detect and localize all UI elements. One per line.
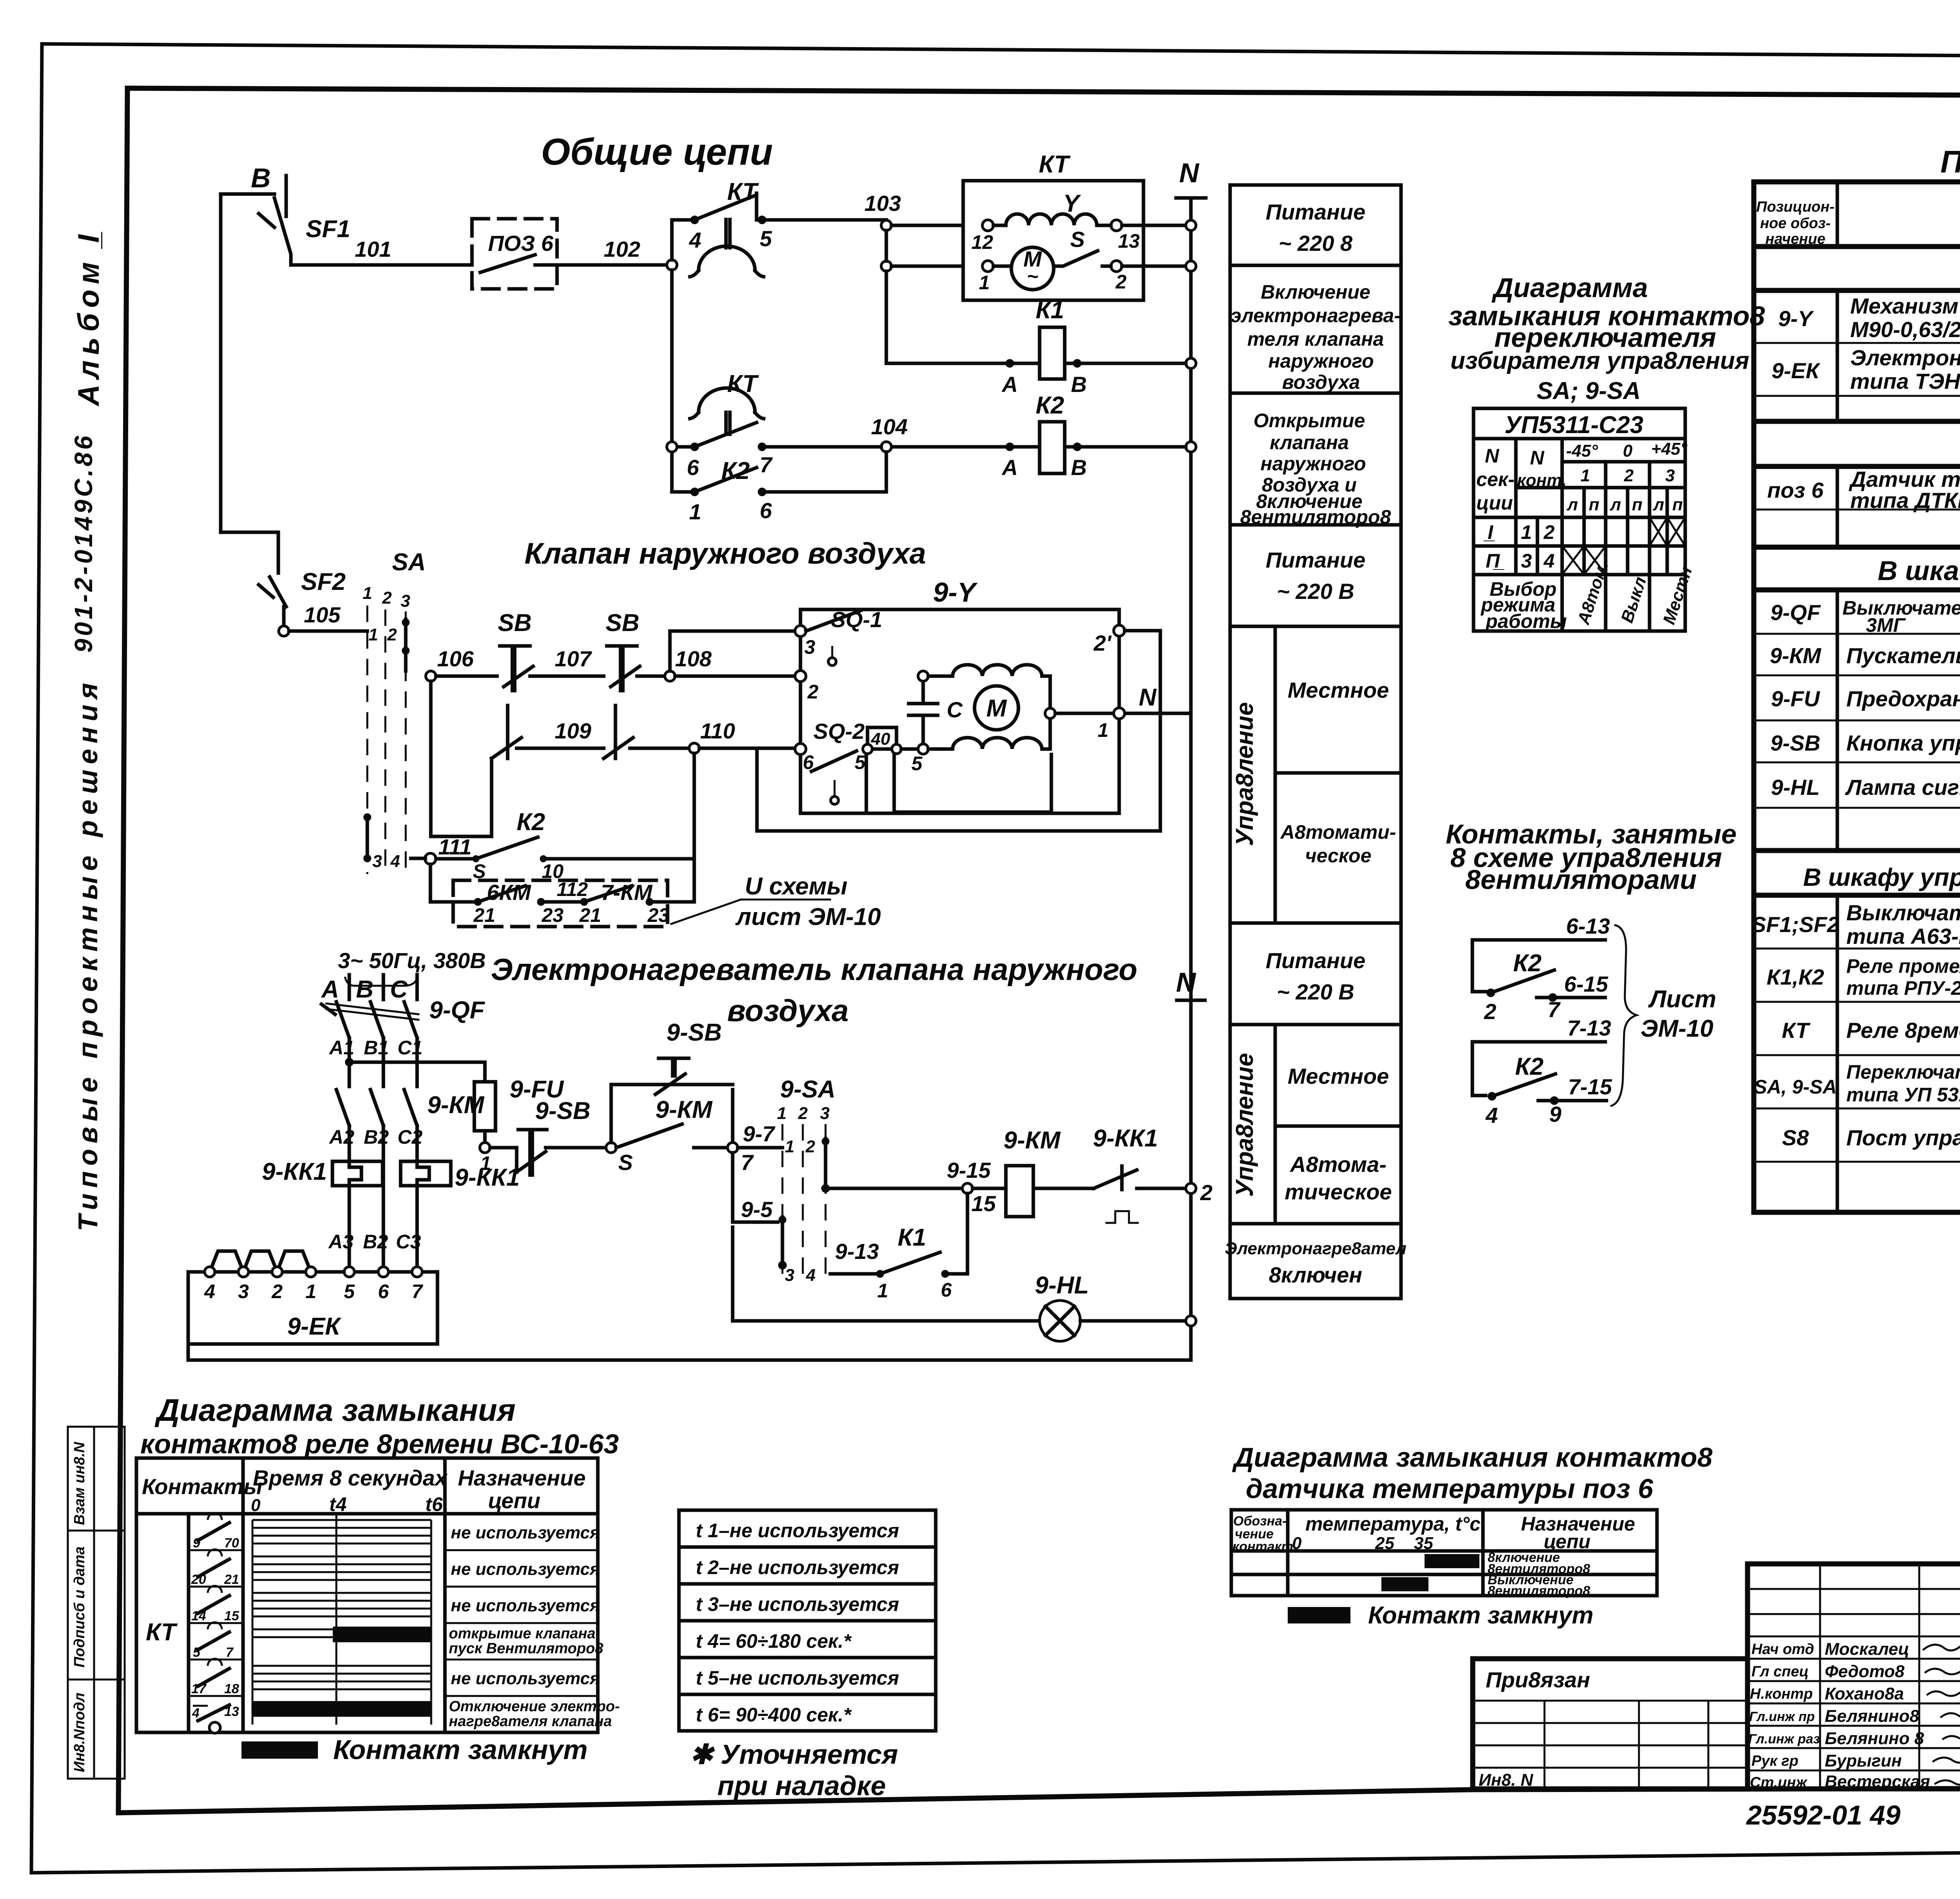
svg-text:SB: SB xyxy=(498,609,532,637)
svg-text:В: В xyxy=(1071,372,1087,397)
svg-text:0: 0 xyxy=(251,1496,261,1515)
wire 110 xyxy=(699,747,796,750)
svg-text:SF2: SF2 xyxy=(301,568,346,595)
svg-text:40: 40 xyxy=(871,729,890,749)
junction node 102 xyxy=(667,260,677,270)
svg-text:9-SB: 9-SB xyxy=(666,1019,722,1046)
svg-text:сек-: сек- xyxy=(1476,468,1515,490)
svg-text:9: 9 xyxy=(1549,1102,1561,1126)
svg-text:Лампа сигнальная типа СС-3: Лампа сигнальная типа СС-3 xyxy=(1845,775,1960,800)
svg-text:конт.: конт. xyxy=(1517,471,1567,490)
time relay contact table xyxy=(136,1458,598,1732)
svg-text:п: п xyxy=(1672,495,1683,514)
svg-text:~ 220 8: ~ 220 8 xyxy=(1279,231,1353,256)
svg-text:1: 1 xyxy=(363,584,372,603)
svg-text:104: 104 xyxy=(871,414,907,439)
svg-text:ции: ции xyxy=(1476,492,1513,514)
svg-text:В2: В2 xyxy=(363,1231,388,1253)
svg-text:7-13: 7-13 xyxy=(1567,1016,1611,1040)
svg-text:S: S xyxy=(618,1150,633,1175)
svg-text:70: 70 xyxy=(224,1536,239,1551)
svg-text:при наладке: при наладке xyxy=(717,1770,886,1801)
svg-text:2: 2 xyxy=(1624,466,1634,485)
svg-text:контакто8 реле 8ремени ВС-10-6: контакто8 реле 8ремени ВС-10-63 xyxy=(140,1429,619,1459)
svg-text:ное обоз-: ное обоз- xyxy=(1760,215,1831,232)
svg-text:N: N xyxy=(1139,684,1157,711)
node 110 xyxy=(689,718,735,753)
svg-text:типа ТЭН-100Б , 220 8, 0,4 к8т: типа ТЭН-100Б , 220 8, 0,4 к8т xyxy=(1850,369,1960,394)
svg-text:S8: S8 xyxy=(1782,1125,1809,1150)
wire feeder vertical 110-KM block xyxy=(693,753,696,902)
svg-text:107: 107 xyxy=(555,646,592,671)
svg-text:7: 7 xyxy=(412,1281,423,1302)
svg-text:3: 3 xyxy=(785,1266,794,1285)
svg-text:1: 1 xyxy=(1581,466,1590,485)
svg-text:t 1–не используется: t 1–не используется xyxy=(696,1520,899,1542)
svg-text:9-ЕК: 9-ЕК xyxy=(1771,358,1820,383)
svg-text:КТ: КТ xyxy=(1782,1018,1811,1043)
brace and note Лист ЭМ-10 xyxy=(1610,925,1716,1106)
svg-text:Диаграмма замыкания: Диаграмма замыкания xyxy=(154,1393,515,1427)
svg-text:не используется: не используется xyxy=(451,1669,600,1688)
svg-text:9: 9 xyxy=(193,1536,200,1551)
wire from A1 to fuse xyxy=(349,1062,485,1082)
svg-text:SA; 9-SA: SA; 9-SA xyxy=(1537,377,1641,404)
svg-text:Рук гр: Рук гр xyxy=(1751,1753,1798,1769)
wire 103 xyxy=(762,191,901,223)
svg-text:К1: К1 xyxy=(898,1224,926,1251)
svg-text:3~ 50Гц, 380В: 3~ 50Гц, 380В xyxy=(338,948,486,973)
svg-text:5: 5 xyxy=(760,226,772,251)
interlock block dashed (to sheet EM-10) xyxy=(430,864,694,927)
temperature sensor contact table xyxy=(1231,1510,1657,1598)
svg-text:Альбом I̲: Альбом I̲ xyxy=(72,229,105,406)
svg-text:теля клапана: теля клапана xyxy=(1247,328,1384,350)
svg-text:9-SA: 9-SA xyxy=(780,1076,835,1103)
svg-text:111: 111 xyxy=(438,834,472,859)
svg-text:25: 25 xyxy=(1375,1534,1394,1553)
svg-text:1: 1 xyxy=(979,272,990,294)
svg-text:3: 3 xyxy=(1521,550,1532,572)
node 103 xyxy=(881,220,891,230)
note Уточняется при наладке xyxy=(690,1739,898,1801)
svg-text:9-Y: 9-Y xyxy=(1778,306,1814,331)
svg-text:Диаграмма замыкания контакто8: Диаграмма замыкания контакто8 xyxy=(1232,1442,1713,1473)
svg-text:Ин8.Nподл: Ин8.Nподл xyxy=(71,1693,88,1772)
svg-text:Время 8 секундах: Время 8 секундах xyxy=(253,1466,448,1490)
svg-text:N: N xyxy=(1176,967,1196,998)
svg-text:1: 1 xyxy=(1098,719,1109,741)
selector 9-SA xyxy=(777,1076,835,1285)
svg-text:4: 4 xyxy=(390,852,400,871)
svg-text:Пускатель магнитный типа ПМ: Пускатель магнитный типа ПМЕ-112 xyxy=(1846,643,1960,668)
svg-text:21: 21 xyxy=(579,904,601,926)
svg-text:К2: К2 xyxy=(1513,950,1542,977)
wire 111 row with contact K2 xyxy=(411,809,694,882)
row 9-FU xyxy=(1771,686,1960,711)
svg-text:При8язан: При8язан xyxy=(1486,1667,1590,1692)
svg-text:13: 13 xyxy=(1118,230,1140,252)
node 2' bypass route xyxy=(757,625,1160,831)
svg-text:9-Y: 9-Y xyxy=(933,577,978,608)
column dividers adjust xyxy=(1229,626,1232,923)
svg-text:9-КК1: 9-КК1 xyxy=(262,1158,327,1185)
svg-text:А3: А3 xyxy=(328,1231,354,1253)
svg-text:4: 4 xyxy=(192,1706,200,1721)
svg-text:6: 6 xyxy=(378,1281,389,1302)
svg-text:12: 12 xyxy=(971,231,993,253)
svg-text:С: С xyxy=(390,976,408,1003)
node on feeder at 1140 xyxy=(667,442,677,452)
svg-text:21: 21 xyxy=(473,904,495,926)
svg-text:6КМ: 6КМ xyxy=(487,880,532,905)
wire branch to lower contacts xyxy=(431,681,492,836)
svg-text:Белянино 8: Белянино 8 xyxy=(1825,1729,1924,1748)
svg-text:3: 3 xyxy=(401,591,410,611)
svg-text:SA, 9-SA: SA, 9-SA xyxy=(1754,1076,1837,1098)
svg-text:2: 2 xyxy=(807,681,818,703)
svg-text:Питание: Питание xyxy=(1266,200,1366,224)
svg-text:л: л xyxy=(1653,495,1664,514)
N bus terminal xyxy=(1176,158,1206,198)
wire 9-5 xyxy=(733,1153,778,1222)
svg-text:Клапан наружного воздуха: Клапан наружного воздуха xyxy=(524,537,926,570)
svg-text:Пост упра8ления типа ПКЕ-11: Пост упра8ления типа ПКЕ-112-2 xyxy=(1846,1125,1960,1150)
svg-text:открытие клапана: открытие клапана xyxy=(449,1625,595,1642)
fuse 9-FU xyxy=(474,1076,564,1174)
svg-text:9-ЕК: 9-ЕК xyxy=(287,1313,341,1340)
svg-text:6: 6 xyxy=(941,1279,952,1301)
svg-text:N: N xyxy=(1530,447,1544,469)
svg-text:1: 1 xyxy=(689,499,701,524)
svg-text:1: 1 xyxy=(877,1280,888,1302)
push button 9-SB (NC) xyxy=(490,1097,606,1175)
svg-text:Механизм исполнительный типа: Механизм исполнительный типа xyxy=(1850,294,1960,318)
svg-text:3: 3 xyxy=(820,1104,829,1123)
svg-text:21: 21 xyxy=(224,1572,239,1587)
node 9-7 xyxy=(728,1121,782,1175)
svg-text:15: 15 xyxy=(971,1191,996,1216)
svg-text:9-FU: 9-FU xyxy=(1771,686,1820,711)
svg-text:3: 3 xyxy=(372,852,382,871)
svg-text:25592-01 49: 25592-01 49 xyxy=(1746,1800,1900,1830)
svg-text:8ентиляторо8: 8ентиляторо8 xyxy=(1488,1583,1590,1598)
signatures squiggles xyxy=(1923,1641,1960,1785)
relay coil K1 xyxy=(886,297,1186,397)
signature table xyxy=(1748,1564,1960,1791)
svg-text:Предохранитель типа ПРС-6-П: Предохранитель типа ПРС-6-П xyxy=(1846,686,1960,711)
svg-text:t 3–не используется: t 3–не используется xyxy=(696,1593,899,1615)
svg-text:Позицион-: Позицион- xyxy=(1756,199,1835,215)
svg-text:1: 1 xyxy=(305,1281,316,1302)
svg-text:Включение: Включение xyxy=(1261,281,1370,303)
svg-text:Реле 8ремени типа ВС-10-63: Реле 8ремени типа ВС-10-63 xyxy=(1846,1018,1960,1043)
svg-text:6: 6 xyxy=(760,498,772,523)
svg-text:t 6= 90÷400 сек.*: t 6= 90÷400 сек.* xyxy=(696,1704,852,1726)
row 9-ЕК xyxy=(1771,345,1960,394)
node 5 xyxy=(606,1143,633,1175)
svg-text:А8тома-: А8тома- xyxy=(1289,1152,1387,1177)
svg-text:нагре8ателя клапана: нагре8ателя клапана xyxy=(449,1713,612,1730)
svg-text:избирателя упра8ления: избирателя упра8ления xyxy=(1450,347,1749,374)
svg-text:поз 6: поз 6 xyxy=(1767,478,1824,502)
svg-text:Местное: Местное xyxy=(1288,678,1389,702)
svg-text:101: 101 xyxy=(355,237,391,261)
node 15 xyxy=(962,1183,996,1216)
svg-text:15: 15 xyxy=(224,1609,240,1623)
svg-text:В: В xyxy=(356,976,374,1003)
svg-text:17: 17 xyxy=(191,1681,207,1696)
svg-text:температура, t°с: температура, t°с xyxy=(1305,1513,1481,1535)
svg-text:Контакты: Контакты xyxy=(142,1474,262,1499)
push button SB left xyxy=(436,609,533,691)
wire 102 xyxy=(557,237,672,265)
node 106 xyxy=(426,646,474,681)
svg-text:Взам ин8.N: Взам ин8.N xyxy=(71,1441,88,1525)
svg-text:М: М xyxy=(986,695,1007,722)
wire 101 xyxy=(291,237,472,265)
svg-text:воздуха: воздуха xyxy=(727,993,849,1028)
svg-text:Электронагре8атель трубчатый: Электронагре8атель трубчатый xyxy=(1850,345,1960,370)
element table header xyxy=(1756,199,1960,247)
selector diagram table УП5311-С23 xyxy=(1474,408,1696,632)
svg-text:8ентиляторо8: 8ентиляторо8 xyxy=(1240,506,1391,528)
wire 105 xyxy=(289,602,367,631)
svg-text:пуск Вентиляторо8: пуск Вентиляторо8 xyxy=(449,1640,604,1657)
svg-text:-45°: -45° xyxy=(1566,441,1598,461)
svg-text:Общие цепи: Общие цепи xyxy=(541,131,773,173)
svg-text:Электронагре8ател: Электронагре8ател xyxy=(1225,1239,1406,1258)
svg-text:9-HL: 9-HL xyxy=(1771,775,1820,800)
N terminal label mid xyxy=(1176,967,1205,1000)
svg-text:А8томати-: А8томати- xyxy=(1280,821,1396,843)
svg-text:N: N xyxy=(1179,158,1200,188)
svg-text:7: 7 xyxy=(760,452,773,477)
svg-text:102: 102 xyxy=(604,237,640,261)
svg-text:7: 7 xyxy=(1548,997,1561,1022)
svg-text:SF1: SF1 xyxy=(306,216,350,243)
svg-text:Отключение электро-: Отключение электро- xyxy=(449,1698,620,1715)
svg-text:13: 13 xyxy=(224,1704,239,1719)
svg-text:ЭМ-10: ЭМ-10 xyxy=(1641,1015,1713,1042)
svg-text:Контакт замкнут: Контакт замкнут xyxy=(1368,1602,1593,1629)
svg-text:не используется: не используется xyxy=(451,1560,600,1579)
row SB xyxy=(1782,1125,1960,1150)
svg-text:U схемы: U схемы xyxy=(745,873,848,900)
breaker SF2 xyxy=(221,532,346,626)
wire 9-15 row xyxy=(830,1158,991,1188)
svg-text:18: 18 xyxy=(224,1681,239,1696)
svg-text:Перечень элементо8: Перечень элементо8 xyxy=(1940,144,1960,179)
svg-text:Гл.инж пр: Гл.инж пр xyxy=(1749,1709,1815,1724)
svg-text:2: 2 xyxy=(1115,271,1127,293)
title диаграмма реле времени xyxy=(140,1393,619,1459)
svg-text:108: 108 xyxy=(675,646,712,671)
signal lamp 9-HL xyxy=(733,1227,1186,1341)
svg-text:9-HL: 9-HL xyxy=(1035,1272,1089,1299)
svg-text:2: 2 xyxy=(798,1104,808,1123)
supply label 3~50Гц,380В xyxy=(338,948,486,986)
push button 9-SB (NO bypass) xyxy=(611,1019,733,1143)
svg-text:7-КМ: 7-КМ xyxy=(601,880,653,905)
push button SB left lower contact xyxy=(492,706,604,758)
svg-text:Москалец: Москалец xyxy=(1825,1640,1909,1659)
svg-text:t 5–не используется: t 5–не используется xyxy=(696,1667,899,1689)
phase wires down xyxy=(349,1038,417,1086)
row SA,9-SA xyxy=(1754,1061,1960,1106)
svg-text:9-QF: 9-QF xyxy=(1770,600,1821,625)
svg-text:6-13: 6-13 xyxy=(1566,914,1610,938)
svg-text:электронагрева-: электронагрева- xyxy=(1230,305,1401,326)
svg-text:2': 2' xyxy=(1093,631,1112,655)
svg-text:работы: работы xyxy=(1485,610,1567,632)
auxiliary contact 9-КМ (NO) xyxy=(616,1096,728,1148)
svg-text:1: 1 xyxy=(480,1152,491,1174)
motor M of actuator xyxy=(918,665,1055,754)
svg-text:0: 0 xyxy=(1623,441,1633,461)
svg-text:начение: начение xyxy=(1765,231,1825,247)
svg-text:7: 7 xyxy=(226,1645,234,1660)
svg-text:2: 2 xyxy=(1543,521,1555,543)
svg-text:п: п xyxy=(1589,495,1599,514)
svg-text:цепи: цепи xyxy=(488,1488,541,1513)
node 1 / N junction xyxy=(1055,684,1191,741)
svg-text:Упра8ление: Упра8ление xyxy=(1231,1053,1258,1197)
svg-text:Выключатель а8томатический: Выключатель а8томатический xyxy=(1846,900,1960,925)
svg-text:9-15: 9-15 xyxy=(947,1158,991,1183)
left margin stamp strip xyxy=(68,1427,125,1779)
svg-text:SQ-2: SQ-2 xyxy=(813,719,865,744)
phase terminals A B C xyxy=(321,975,417,1003)
svg-text:л: л xyxy=(1610,495,1621,514)
row 9-Y xyxy=(1778,294,1960,343)
svg-text:14: 14 xyxy=(191,1609,206,1623)
wire 108 to node 2 xyxy=(675,675,796,678)
svg-text:3: 3 xyxy=(238,1281,249,1302)
push button SB right xyxy=(606,609,665,691)
svg-text:1: 1 xyxy=(368,625,378,644)
svg-text:Типовые проектные решения: Типовые проектные решения xyxy=(73,677,103,1231)
svg-text:К1: К1 xyxy=(1036,297,1064,324)
svg-text:SB: SB xyxy=(606,609,639,637)
svg-text:8ентиляторами: 8ентиляторами xyxy=(1465,864,1697,895)
svg-text:Бурыгин: Бурыгин xyxy=(1825,1751,1902,1770)
node 2 xyxy=(795,671,818,703)
diagram title SA;9-SA xyxy=(1448,272,1765,404)
svg-text:М90-0,63/25-0,25;220 8; 0,065: М90-0,63/25-0,25;220 8; 0,065 к8т xyxy=(1850,317,1960,342)
svg-text:1: 1 xyxy=(1521,521,1532,543)
svg-text:воздуха: воздуха xyxy=(1282,371,1360,393)
left attachment block xyxy=(1473,1667,1748,1790)
svg-text:9-5: 9-5 xyxy=(741,1197,773,1222)
svg-text:УП5311-С23: УП5311-С23 xyxy=(1504,412,1643,439)
svg-text:Подписб и дата: Подписб и дата xyxy=(71,1547,88,1668)
svg-text:9-7: 9-7 xyxy=(743,1121,776,1146)
relay contact K2 (NO) xyxy=(672,452,886,524)
svg-text:л: л xyxy=(1566,495,1578,514)
svg-text:~: ~ xyxy=(1027,265,1038,287)
svg-text:0: 0 xyxy=(1292,1534,1302,1553)
svg-text:t6: t6 xyxy=(425,1493,443,1515)
svg-text:К2: К2 xyxy=(517,809,545,836)
contactor 9-КМ main contacts xyxy=(328,1090,485,1148)
svg-text:3МГ: 3МГ xyxy=(1866,614,1906,636)
wire KT box to N bus xyxy=(1122,225,1191,266)
svg-text:105: 105 xyxy=(304,602,341,627)
svg-text:КТ: КТ xyxy=(1039,151,1071,178)
relay contact KT (NC, time delay) xyxy=(672,178,772,277)
contact K2 diagram 7-13 xyxy=(1472,1016,1612,1128)
svg-text:SF1;SF2: SF1;SF2 xyxy=(1751,912,1839,937)
svg-text:Н.контр: Н.контр xyxy=(1750,1686,1813,1702)
node 2 on N bus xyxy=(1186,1180,1212,1205)
svg-text:4: 4 xyxy=(1485,1103,1498,1128)
svg-text:901-2-0149С.86: 901-2-0149С.86 xyxy=(69,433,98,653)
svg-text:9-КМ: 9-КМ xyxy=(655,1096,713,1123)
svg-text:6-15: 6-15 xyxy=(1564,972,1608,996)
svg-text:110: 110 xyxy=(700,718,735,743)
node 103 lower xyxy=(881,261,891,271)
svg-text:N: N xyxy=(1485,445,1499,467)
svg-text:9-QF: 9-QF xyxy=(429,997,485,1024)
svg-text:103: 103 xyxy=(864,191,901,216)
svg-text:2: 2 xyxy=(387,625,397,644)
svg-text:А: А xyxy=(1001,455,1018,480)
svg-text:Федото8: Федото8 xyxy=(1825,1662,1905,1681)
capacitor C xyxy=(909,676,963,749)
svg-text:Кохано8а: Кохано8а xyxy=(1825,1684,1904,1703)
svg-text:В шкафу 5-ШУ(ШУ5105-03В2Е): В шкафу 5-ШУ(ШУ5105-03В2Е) xyxy=(1878,555,1960,586)
N bus node circles xyxy=(1186,220,1196,230)
svg-text:4: 4 xyxy=(204,1281,215,1302)
push button SB right lower contact xyxy=(604,706,689,758)
svg-text:~ 220 В: ~ 220 В xyxy=(1277,979,1354,1004)
contact symbols column xyxy=(191,1513,240,1733)
node on N bus at lamp row xyxy=(1186,1316,1196,1326)
svg-text:23: 23 xyxy=(647,904,670,926)
svg-text:В шкафу упра8ления 8ентилято: В шкафу упра8ления 8ентиляторами ШУВ xyxy=(1803,863,1960,891)
closed contact bars xyxy=(333,1627,431,1642)
svg-text:В: В xyxy=(251,163,271,193)
svg-text:клапана: клапана xyxy=(1270,432,1349,453)
circuit breaker 9-QF xyxy=(321,997,485,1059)
wire 108 to SQ1 xyxy=(670,631,796,671)
element list table frame xyxy=(1754,182,1960,1212)
svg-text:9-КМ: 9-КМ xyxy=(1770,643,1822,668)
contactor coil 9-КМ xyxy=(973,1127,1094,1217)
svg-text:6: 6 xyxy=(803,751,814,773)
callout И схемы лист ЭМ-10 xyxy=(670,873,881,930)
heater bank 9-ЕК xyxy=(188,1251,437,1344)
svg-text:Питание: Питание xyxy=(1266,548,1366,572)
svg-text:C: C xyxy=(947,697,963,722)
svg-text:Открытие: Открытие xyxy=(1254,410,1365,432)
svg-text:5: 5 xyxy=(855,751,866,773)
svg-text:t 4= 60÷180 сек.*: t 4= 60÷180 сек.* xyxy=(696,1630,852,1652)
svg-text:КТ: КТ xyxy=(146,1619,178,1646)
svg-text:3: 3 xyxy=(804,636,815,658)
svg-text:Лист: Лист xyxy=(1648,986,1716,1013)
svg-text:Контакт замкнут: Контакт замкнут xyxy=(333,1734,588,1765)
svg-text:9-SB: 9-SB xyxy=(535,1097,590,1125)
row 9-HL xyxy=(1771,764,1960,811)
wire 107 xyxy=(530,646,604,676)
wire 103 to relay box xyxy=(891,224,963,227)
thermal relay 9-КК1 heaters xyxy=(262,1158,520,1272)
title block frame xyxy=(1473,1564,1960,1789)
row 9-QF xyxy=(1770,597,1960,636)
svg-text:Назначение: Назначение xyxy=(458,1466,586,1490)
